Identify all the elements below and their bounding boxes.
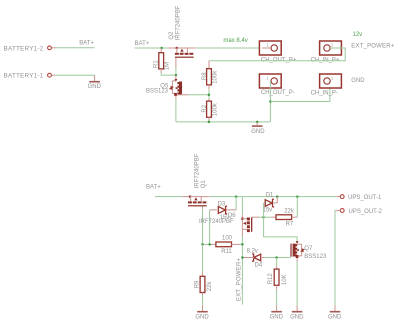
junction node D4 / EXT_POWER+ [241, 256, 244, 259]
svg-text:BATTERY1-1: BATTERY1-1 [4, 73, 44, 80]
wire BATTERY1-1 to ground [56, 74, 95, 76]
wire R7 right up to rail [296, 197, 298, 218]
junction node R7 [296, 195, 299, 198]
svg-text:R2: R2 [202, 104, 208, 112]
svg-text:GND: GND [251, 129, 265, 135]
diode D1 15v [263, 192, 278, 213]
wire gnd rail (top section) [176, 121, 270, 123]
junction node at R1 top [160, 47, 163, 50]
junction node R11 / EXT_POWER+ [241, 243, 244, 246]
wire CH_OUT_P- down [269, 82, 271, 122]
wire BAT+ rail (bottom) [155, 196, 183, 198]
ground GND (battery) [88, 75, 102, 90]
diode D3 15v [210, 201, 237, 221]
resistor R1 [154, 48, 171, 73]
wire Q2 drain to CH_OUT_P+ [195, 47, 271, 49]
ground GND (R12) [270, 305, 284, 320]
svg-text:UPS_OUT-2: UPS_OUT-2 [349, 209, 383, 215]
wire BAT+ from BATTERY1-2 [56, 47, 95, 49]
connector CH_OUT_P- [259, 74, 295, 96]
wire Q5 source down to gnd rail [175, 98, 177, 122]
pin UPS_OUT-1 [336, 195, 382, 201]
svg-text:BAT+: BAT+ [135, 41, 150, 47]
transistor Q5 BSS123 [146, 75, 189, 98]
svg-text:Q6: Q6 [228, 213, 237, 219]
svg-text:CH_OUT_P-: CH_OUT_P- [261, 90, 295, 96]
wire D3 anode down [209, 210, 211, 245]
wire R1 bottom to gate node [161, 73, 176, 75]
ground GND (top section) [251, 122, 265, 135]
svg-text:1: 1 [266, 75, 269, 80]
connector CH_OUT_P+ [259, 41, 297, 63]
wire R12 bottom to ground [276, 290, 278, 305]
junction node Q1 gate / R9 [201, 243, 204, 246]
ground GND (UPS_OUT-2) [328, 305, 342, 320]
svg-text:BSS123: BSS123 [304, 254, 327, 260]
svg-text:R8: R8 [202, 72, 208, 80]
svg-text:GND: GND [351, 78, 365, 84]
svg-text:100k: 100k [212, 70, 218, 84]
svg-text:GND: GND [328, 315, 342, 321]
transistor Q6 IRF7240PBF [199, 197, 252, 237]
junction node D3 cathode [235, 195, 238, 198]
svg-text:BSS123: BSS123 [146, 89, 169, 95]
ground GND (R9) [195, 305, 209, 320]
transistor Q2 IRF7240PBF [168, 5, 195, 58]
wire Q5 gate to divider [189, 94, 209, 96]
svg-text:EXT_POWER+: EXT_POWER+ [351, 44, 394, 50]
svg-text:10K: 10K [282, 274, 288, 285]
connector CH_IN_P- [311, 74, 342, 96]
resistor R11 100 [210, 235, 243, 255]
wire D3 cathode up [235, 197, 237, 210]
wire Q1 gate down [202, 206, 204, 244]
svg-text:R9: R9 [194, 280, 200, 288]
wire Q6 gate right [252, 216, 264, 218]
svg-text:IRF7240PBF: IRF7240PBF [176, 5, 182, 40]
svg-text:CH_IN_P-: CH_IN_P- [311, 90, 338, 96]
wire D4 to Q7 gate [264, 257, 291, 259]
connector CH_IN_P+ [311, 41, 342, 64]
wire EXT_POWER+ vertical [241, 237, 243, 305]
svg-text:GND: GND [88, 84, 102, 90]
resistor R9 22k [194, 244, 213, 295]
svg-text:GND: GND [270, 315, 284, 321]
svg-text:1: 1 [331, 75, 334, 80]
svg-text:R7: R7 [286, 221, 294, 227]
pin UPS_OUT-2 [336, 209, 382, 215]
svg-text:Q1: Q1 [201, 180, 207, 189]
svg-text:EXT_POWER+: EXT_POWER+ [237, 258, 243, 301]
wire CH_IN_P+ to EXT_POWER+ net [209, 48, 345, 61]
resistor R12 10K [268, 258, 288, 290]
junction node Q2 gate / Q5 drain [175, 74, 178, 77]
resistor R7 22k [264, 209, 298, 228]
svg-text:BAT+: BAT+ [146, 185, 161, 191]
svg-text:UPS_OUT-1: UPS_OUT-1 [348, 195, 382, 201]
svg-text:R1: R1 [154, 60, 160, 68]
wire D1 anode down to gate node [263, 203, 265, 217]
svg-text:GND: GND [195, 315, 209, 321]
diode D4 8.2v [242, 249, 264, 269]
junction node at y101.5 [269, 100, 272, 103]
junction node gnd tap [256, 121, 259, 124]
svg-text:IRF7240PBF: IRF7240PBF [195, 153, 201, 188]
pin BATTERY1-2 [4, 45, 56, 52]
wire UPS_OUT-2 down to ground [335, 211, 336, 306]
svg-text:BATTERY1-2: BATTERY1-2 [4, 45, 44, 52]
wire Q7 source down to ground [296, 262, 298, 306]
wire BAT+ rail (top) [135, 47, 169, 49]
junction node R12 top [275, 256, 278, 259]
svg-text:22k: 22k [284, 209, 295, 215]
ground GND (Q7) [290, 305, 304, 320]
junction node divider mid [208, 89, 210, 99]
svg-text:100k: 100k [212, 102, 218, 116]
svg-text:max 8.4v: max 8.4v [223, 38, 247, 44]
wire R9 bottom to ground [202, 295, 204, 305]
resistor R2 [202, 99, 218, 122]
svg-text:IRF7240PBF: IRF7240PBF [199, 219, 234, 225]
wire gate node down to Q7 drain [264, 217, 298, 241]
svg-text:R12: R12 [268, 273, 274, 285]
wire between gate-drop and D3-drop [203, 243, 210, 245]
junction node R2 bottom [208, 121, 211, 124]
junction node D1 [276, 195, 279, 198]
junction node D3 / R11 [208, 243, 211, 246]
svg-text:Q2: Q2 [169, 31, 175, 40]
svg-text:1: 1 [266, 42, 269, 47]
svg-text:12v: 12v [353, 32, 363, 38]
transistor Q1 IRF7240PBF [183, 153, 210, 206]
resistor R8 [202, 61, 218, 90]
svg-text:R11: R11 [221, 249, 232, 255]
wire Q2 gate down [175, 58, 177, 75]
svg-text:Q7: Q7 [304, 246, 313, 252]
svg-text:22k: 22k [207, 281, 213, 292]
svg-text:100: 100 [222, 235, 233, 241]
pin BATTERY1-1 [4, 73, 56, 80]
svg-text:D1: D1 [266, 192, 274, 198]
junction node gate drive [262, 216, 265, 219]
svg-text:1M: 1M [164, 62, 170, 70]
svg-text:D4: D4 [255, 262, 263, 268]
svg-text:BAT+: BAT+ [79, 40, 94, 46]
svg-text:GND: GND [290, 315, 304, 321]
wire rail Q1 to D3 node [209, 196, 336, 198]
transistor Q7 BSS123 [290, 241, 327, 262]
wire cross link to CH_IN_P- [270, 82, 330, 102]
svg-text:1: 1 [331, 42, 334, 47]
